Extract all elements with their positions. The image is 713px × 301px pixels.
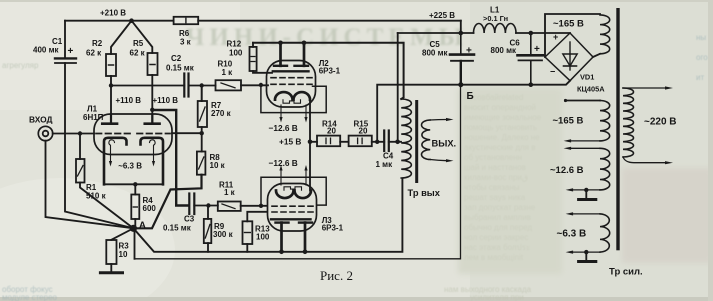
svg-text:1 к: 1 к	[224, 188, 236, 197]
capacitor C6	[530, 33, 532, 55]
svg-text:ВЫХ.: ВЫХ.	[432, 139, 457, 149]
transformer Тр сил core	[616, 8, 619, 250]
diode inside VD1	[569, 42, 571, 70]
grid (dashed) Л1 left	[96, 133, 130, 135]
svg-text:нас этажа болประ: нас этажа болประ	[464, 243, 530, 252]
winding III (12.6V)	[570, 147, 600, 149]
resistor R10	[216, 80, 242, 90]
control grid Л3 (dashed)	[272, 205, 313, 207]
svg-text:имеющие зональное: имеющие зональное	[464, 113, 542, 122]
wire anodes Л2 to output transformer	[253, 43, 404, 99]
svg-text:>0.1 Гн: >0.1 Гн	[483, 14, 508, 23]
cathode Л1 right triode	[141, 138, 164, 185]
resistor R6	[174, 17, 199, 24]
inductor L1	[474, 23, 517, 33]
svg-text:C3: C3	[184, 215, 195, 224]
output terminal top arrow	[430, 119, 447, 122]
screen grid Л2 (dashed)	[271, 77, 312, 79]
svg-text:лем в маобщinit: лем в маобщinit	[464, 253, 524, 262]
grid (dashed) Л1 right	[137, 133, 170, 135]
220V bottom arrow	[623, 157, 666, 163]
svg-text:+: +	[534, 44, 540, 55]
transformer Тр вых secondary	[422, 120, 431, 160]
resistor R2	[106, 54, 116, 76]
svg-text:+: +	[553, 32, 558, 42]
wire node A to cathode return line	[133, 179, 402, 252]
screen grid Л3 (dashed)	[272, 211, 313, 213]
svg-text:Тр сил.: Тр сил.	[609, 267, 643, 278]
cathodes Л3	[276, 191, 294, 199]
svg-text:акустические для в: акустические для в	[464, 143, 535, 152]
wire R1 bottom to node A	[80, 183, 133, 229]
svg-text:C2: C2	[171, 54, 182, 63]
resistor R5	[148, 53, 158, 75]
anode lead caps Л3	[276, 221, 289, 223]
wire R5 diagonal from +210V node	[132, 21, 153, 53]
wire C3 to R11	[194, 205, 218, 207]
capacitor C2	[183, 74, 185, 97]
wire R15 junction up to Б rail	[377, 85, 461, 142]
svg-text:−: −	[550, 67, 555, 77]
svg-text:3 к: 3 к	[180, 38, 192, 47]
wire +210V/+225V top rail	[65, 20, 461, 22]
winding 220V primary	[623, 88, 634, 157]
svg-text:+15 В: +15 В	[279, 136, 301, 146]
svg-text:чол серии эакрес: чол серии эакрес	[464, 233, 528, 242]
svg-text:агрегуляр: агрегуляр	[2, 61, 39, 70]
svg-text:ит: ит	[696, 73, 704, 82]
resistor R8	[201, 133, 203, 151]
svg-text:Тр вых: Тр вых	[408, 188, 441, 198]
cathodes Л2	[275, 92, 293, 100]
svg-text:чтобы связаны: чтобы связаны	[464, 183, 520, 192]
wire R12 to anode bar Л2	[253, 71, 272, 73]
svg-text:ны: ны	[696, 33, 706, 42]
wire anode R5 to C3 (thick)	[152, 110, 189, 206]
svg-text:−12.6 В: −12.6 В	[269, 158, 298, 168]
svg-text:800 мк: 800 мк	[422, 49, 448, 58]
wire R2 diagonal from +210V node	[111, 21, 132, 54]
wire cathodes common	[104, 183, 163, 185]
wire bottom rail (ground)	[135, 85, 461, 259]
svg-text:62 к: 62 к	[130, 49, 146, 58]
anode plate Л3 (long bar)	[271, 218, 311, 220]
resistor R13	[247, 212, 267, 222]
resistor R1	[79, 134, 81, 160]
svg-text:6Р3-1: 6Р3-1	[319, 67, 341, 76]
svg-text:10 к: 10 к	[210, 161, 226, 170]
heater Л2	[283, 100, 301, 103]
rectifier bridge VD1	[545, 33, 593, 81]
wire Б rail to rectifier minus	[461, 81, 570, 85]
svg-text:6Р3-1: 6Р3-1	[322, 224, 344, 233]
wire R5 bottom to anode Л1	[151, 75, 153, 123]
transformer Тр вых primary	[401, 99, 411, 178]
anode stems Л2 to +225 wire	[279, 43, 282, 66]
svg-text:ВХОД: ВХОД	[29, 115, 53, 125]
resistor R9	[207, 206, 209, 219]
svg-text:~165 В: ~165 В	[553, 115, 584, 126]
anode plate Л2 (long bar)	[273, 70, 309, 72]
svg-text:+110 В: +110 В	[116, 96, 142, 105]
node +210V junction	[129, 18, 134, 23]
svg-text:0.15 мк: 0.15 мк	[163, 224, 192, 233]
svg-text:+210 В: +210 В	[100, 9, 126, 18]
capacitor C1	[55, 57, 76, 59]
tube Л3 envelope	[268, 184, 317, 232]
wire R11 to grid Л3	[241, 205, 267, 207]
capacitor C5	[460, 33, 462, 54]
svg-text:~220 В: ~220 В	[644, 116, 677, 127]
resistor R12	[252, 43, 254, 47]
svg-text:300 к: 300 к	[213, 230, 234, 239]
wire R10 to grid Л2	[241, 84, 268, 86]
svg-text:800 мк: 800 мк	[491, 46, 517, 55]
heater Л3	[284, 187, 302, 190]
svg-text:~6.3 В: ~6.3 В	[557, 228, 587, 239]
svg-text:ношение. Далеко не: ношение. Далеко не	[464, 133, 540, 142]
svg-text:100: 100	[229, 48, 243, 57]
svg-text:20: 20	[359, 127, 368, 136]
control grid Л2 (dashed)	[271, 83, 312, 85]
svg-text:400 мк: 400 мк	[33, 46, 59, 55]
capacitor C3	[188, 194, 190, 215]
svg-text:600: 600	[143, 204, 157, 213]
heater leads Л3 with arrows	[280, 170, 282, 186]
wire L1 feed line	[398, 32, 570, 34]
svg-text:0.15 мк: 0.15 мк	[166, 64, 195, 73]
node Б	[458, 82, 463, 87]
svg-text:6Н1П: 6Н1П	[83, 113, 104, 122]
wire top rail corner down to L1 line	[460, 21, 462, 33]
svg-text:100: 100	[256, 233, 270, 242]
svg-text:+: +	[466, 46, 472, 57]
heater Л1 left with arrow	[109, 140, 115, 162]
svg-text:+: +	[68, 46, 74, 57]
svg-text:+110 В: +110 В	[153, 96, 179, 105]
wire grid2 Л1 to R7/R8	[172, 132, 202, 134]
ground winding IV	[585, 252, 587, 260]
220V top arrow	[623, 87, 666, 89]
wire C1 top	[64, 21, 66, 58]
resistor R15	[340, 141, 348, 143]
svg-text:1 к: 1 к	[222, 68, 234, 77]
svg-text:Рис. 2: Рис. 2	[320, 268, 353, 283]
resistor R3	[111, 228, 133, 240]
heater leads Л2 with arrows (−12.6V)	[280, 105, 282, 118]
svg-text:R5: R5	[133, 39, 144, 48]
wire node A to bottom rail	[134, 228, 136, 258]
svg-text:+225 В: +225 В	[429, 11, 455, 20]
svg-text:зап допускат разне: зап допускат разне	[464, 203, 536, 212]
svg-text:модуле стерео: модуле стерео	[2, 293, 58, 301]
capacitor C4	[383, 131, 385, 152]
svg-text:помощь установить: помощь установить	[464, 123, 537, 132]
svg-text:усилителя при: усилителя при	[470, 293, 524, 301]
svg-text:вносит операндной: вносит операндной	[464, 103, 536, 112]
tube Л1 envelope	[94, 114, 172, 155]
ground winding III	[585, 190, 587, 198]
svg-text:Б: Б	[467, 91, 474, 102]
svg-text:решат says ника: решат says ника	[464, 193, 526, 202]
wire input to grid Л1	[53, 133, 94, 135]
wire C1 bottom to node A	[65, 63, 133, 228]
svg-text:10: 10	[119, 250, 128, 259]
transformer Тр вых core	[415, 100, 418, 183]
svg-text:ого: ого	[696, 53, 708, 62]
wire C4 to primary centre tap	[389, 141, 401, 143]
output terminal bottom arrow	[430, 160, 447, 161]
svg-text:62 к: 62 к	[86, 49, 102, 58]
svg-text:выбранил амплив: выбранил амплив	[464, 213, 531, 222]
resistor R4	[134, 184, 136, 194]
resistor R7	[201, 86, 203, 102]
winding II (165V)	[565, 100, 600, 102]
svg-text:20: 20	[327, 127, 336, 136]
node A	[130, 225, 137, 232]
input connector ВХОД	[38, 126, 52, 140]
svg-text:~165 В: ~165 В	[553, 18, 584, 29]
resistor R14	[310, 141, 317, 143]
svg-text:~6.3 В: ~6.3 В	[118, 162, 142, 171]
cathode lead Л2/Л3 to +15V node	[309, 100, 311, 191]
svg-text:КЦ405А: КЦ405А	[577, 85, 605, 94]
wire +225 rail to centre tap	[397, 33, 399, 142]
svg-text:A: A	[139, 220, 146, 231]
anode stems Л3	[280, 223, 283, 252]
resistor R11	[218, 202, 241, 211]
beam plate loop Л3	[261, 177, 326, 206]
wire C2 to R10	[189, 85, 216, 87]
svg-text:~12.6 В: ~12.6 В	[550, 165, 584, 176]
tube Л2 envelope	[267, 61, 316, 108]
svg-text:R12: R12	[227, 40, 242, 49]
svg-text:килами-вос приق: килами-вос приق	[464, 173, 528, 182]
cathode Л1 left triode	[104, 138, 127, 185]
wire input shield down to node A	[46, 141, 134, 229]
anode lead caps Л2	[274, 65, 287, 67]
wire node A to R8/feedback (thick)	[133, 175, 201, 229]
svg-text:510 к: 510 к	[86, 191, 107, 200]
winding I (165V top)	[545, 14, 600, 57]
wire R15 to C4	[372, 141, 384, 143]
svg-text:R2: R2	[92, 39, 103, 48]
svg-text:об установленн: об установленн	[464, 153, 522, 162]
svg-text:1 мк: 1 мк	[376, 160, 394, 169]
svg-text:270 к: 270 к	[211, 109, 232, 118]
heater Л1 right with arrow	[150, 140, 156, 162]
winding IV (6.3V)	[572, 213, 600, 215]
anode plates Л1	[102, 122, 117, 125]
svg-text:VD1: VD1	[580, 73, 594, 82]
wire anode R2 to C2	[111, 85, 184, 87]
ground below R3	[110, 264, 112, 272]
svg-text:обычно для перед: обычно для перед	[464, 223, 532, 232]
beam plate loop Л2	[261, 85, 326, 113]
wire R2 bottom to anode Л1	[110, 76, 112, 123]
svg-text:−12.6 В: −12.6 В	[269, 123, 298, 133]
svg-text:шай и насттанов: шай и насттанов	[464, 163, 526, 172]
